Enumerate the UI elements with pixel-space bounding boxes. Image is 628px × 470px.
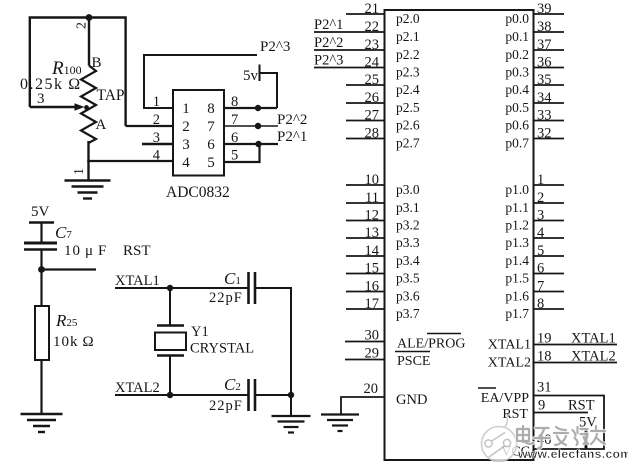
svg-text:p1.6: p1.6 <box>505 289 529 304</box>
pin number 3 (pot wiper) <box>37 91 45 107</box>
wire MCU pin 17 <box>346 308 385 310</box>
pin number 23 <box>365 37 380 53</box>
resistor R100 body (zigzag) <box>81 66 96 144</box>
label C7 <box>55 223 72 242</box>
wire MCU pin 21 <box>346 13 385 15</box>
pin label p3.3 <box>396 235 420 250</box>
node ADC pin7 <box>255 123 261 129</box>
svg-text:ADC0832: ADC0832 <box>166 184 230 201</box>
svg-text:P2^1: P2^1 <box>277 129 307 145</box>
wire MCU pin 7 <box>534 291 565 293</box>
pin label p3.0 <box>396 182 420 197</box>
node pot top junction <box>86 14 93 21</box>
svg-text:7: 7 <box>231 112 238 128</box>
net XTAL1 label <box>115 273 160 289</box>
ground (R25) <box>21 414 63 432</box>
svg-text:PSCE: PSCE <box>397 354 430 369</box>
wire MCU pin 1 <box>534 184 565 186</box>
label R25 <box>55 311 78 330</box>
ground (pot) <box>65 181 111 199</box>
wire MCU pin 23 <box>314 49 385 51</box>
node XTAL2 / crystal <box>167 392 173 398</box>
pin label p3.1 <box>396 200 420 215</box>
pin number 4 (ADC) <box>153 148 161 164</box>
pin label p1.2 <box>505 218 529 233</box>
net P2^2 (ADC) <box>277 112 307 128</box>
pin label p2.2 <box>396 47 420 62</box>
wire MCU pin 24 <box>314 67 385 69</box>
svg-text:26: 26 <box>365 90 380 106</box>
pin number 20 <box>364 381 379 397</box>
wire MCU pin 34 <box>534 102 565 104</box>
MCU 89C51 body <box>385 10 534 460</box>
pin label p2.3 <box>396 65 420 80</box>
svg-text:10k Ω: 10k Ω <box>53 334 95 350</box>
wire MCU pin 26 <box>346 102 385 104</box>
pin label p1.3 <box>505 235 529 250</box>
pin number 13 <box>365 225 380 241</box>
pin label p1.0 <box>505 182 529 197</box>
svg-text:8: 8 <box>537 296 544 312</box>
pin label p2.1 <box>396 29 420 44</box>
pin number 27 <box>365 107 380 123</box>
label C2 <box>224 375 241 394</box>
svg-text:p0.3: p0.3 <box>505 65 529 80</box>
svg-text:4: 4 <box>182 155 190 171</box>
svg-text:1: 1 <box>72 168 87 175</box>
pin label EA/VPP <box>478 388 529 406</box>
svg-text:TAP: TAP <box>97 87 125 104</box>
svg-text:p2.2: p2.2 <box>396 47 420 62</box>
wire MCU pin 2 <box>534 202 565 204</box>
net RST label <box>123 243 151 259</box>
pin label p0.0 <box>505 11 529 26</box>
power 5v tap <box>243 65 277 109</box>
svg-text:XTAL1: XTAL1 <box>115 273 160 289</box>
svg-text:XTAL2: XTAL2 <box>488 356 531 371</box>
svg-text:18: 18 <box>537 349 552 365</box>
svg-text:35: 35 <box>537 72 552 88</box>
svg-text:10 μ F: 10 μ F <box>64 243 107 259</box>
svg-text:2: 2 <box>182 119 190 135</box>
wire ADC pin5 to pin6 <box>224 144 260 162</box>
wire ADC pin3 stub <box>142 143 173 145</box>
pin number 37 <box>537 37 552 53</box>
svg-text:6: 6 <box>231 130 238 146</box>
pin label p2.7 <box>396 136 420 151</box>
pin label RST <box>502 407 528 422</box>
svg-text:22: 22 <box>365 19 380 35</box>
svg-text:31: 31 <box>537 380 552 396</box>
pin number 7 (ADC) <box>231 112 238 128</box>
wire MCU pin 37 <box>534 49 565 51</box>
svg-text:Y1: Y1 <box>191 324 209 340</box>
svg-text:p1.2: p1.2 <box>505 218 529 233</box>
wire ADC pin1 to P2^3 <box>144 55 257 108</box>
wire MCU pin 9 RST <box>534 412 589 414</box>
svg-text:EA/VPP: EA/VPP <box>481 391 529 406</box>
svg-text:5: 5 <box>537 243 544 259</box>
pin label p0.5 <box>505 100 529 115</box>
svg-text:P2^1: P2^1 <box>314 17 343 33</box>
wire MCU pin 12 <box>346 220 385 222</box>
svg-text:22pF: 22pF <box>209 290 243 306</box>
net P2^1 (ADC) <box>277 129 307 145</box>
svg-text:XTAL1: XTAL1 <box>571 331 616 347</box>
pin number 6 (ADC) <box>231 130 238 146</box>
net XTAL2 label <box>115 380 160 396</box>
pin number 2 <box>537 190 544 206</box>
net P2^3 (ADC) <box>260 39 290 55</box>
svg-text:p1.4: p1.4 <box>505 253 529 268</box>
svg-text:3: 3 <box>37 91 45 107</box>
pin number 4 <box>537 225 545 241</box>
node ground rail <box>288 392 294 398</box>
wire MCU pin 3 <box>534 220 565 222</box>
pin number 15 <box>365 260 380 276</box>
wire MCU pin 5 <box>534 255 565 257</box>
wire ADC pin2 to pot <box>126 125 173 127</box>
pin number 3 (ADC) <box>153 130 160 146</box>
svg-text:27: 27 <box>365 107 380 123</box>
pin number 36 <box>537 54 552 70</box>
wire MCU pin 35 <box>534 84 565 86</box>
wire MCU pin 13 <box>346 237 385 239</box>
pin number 8 <box>537 296 544 312</box>
svg-text:30: 30 <box>365 328 380 344</box>
svg-text:17: 17 <box>365 296 380 312</box>
capacitor C2 <box>249 379 256 411</box>
svg-text:16: 16 <box>365 278 380 294</box>
pin number 5 (ADC) <box>231 148 238 164</box>
wire C1 to ground rail <box>255 288 291 395</box>
wire MCU pin 22 <box>314 31 385 33</box>
svg-text:22pF: 22pF <box>209 398 243 414</box>
power 5V (MCU) <box>579 415 597 450</box>
pin number 39 <box>537 1 552 17</box>
svg-text:p1.3: p1.3 <box>505 235 529 250</box>
svg-text:XTAL2: XTAL2 <box>115 380 160 396</box>
wire MCU pin 19 XTAL1 <box>534 344 618 346</box>
wire MCU pin 38 <box>534 31 565 33</box>
wire MCU pin 30 ALE <box>345 341 385 343</box>
svg-text:p0.2: p0.2 <box>505 47 529 62</box>
pin number 1 (ADC) <box>153 94 160 110</box>
wire ground rail down <box>290 395 292 416</box>
svg-text:20: 20 <box>364 381 379 397</box>
svg-text:RST: RST <box>568 398 595 414</box>
svg-text:p2.1: p2.1 <box>396 29 420 44</box>
pin label p2.6 <box>396 118 420 133</box>
pin number 28 <box>365 125 380 141</box>
pin number 33 <box>537 107 552 123</box>
wire C2 to ground rail <box>255 394 291 396</box>
svg-text:p3.2: p3.2 <box>396 218 420 233</box>
svg-text:P2^2: P2^2 <box>314 35 343 51</box>
node pot wiper contact <box>84 105 89 110</box>
svg-text:14: 14 <box>365 243 380 259</box>
pin label XTAL1 <box>488 338 531 353</box>
wire pot wiper (TAP) from loop <box>30 106 76 108</box>
svg-text:24: 24 <box>365 54 380 70</box>
wire MCU pin 29 PSEN <box>345 359 385 361</box>
pot wiper arrow <box>75 103 85 111</box>
svg-text:5V: 5V <box>31 204 50 220</box>
svg-text:10: 10 <box>365 172 380 188</box>
pin label p0.4 <box>505 82 529 97</box>
svg-text:C7: C7 <box>55 223 72 242</box>
svg-text:1: 1 <box>537 172 544 188</box>
svg-text:7: 7 <box>207 119 215 135</box>
svg-text:p0.4: p0.4 <box>505 82 529 97</box>
svg-text:33: 33 <box>537 107 552 123</box>
pin number 12 <box>365 207 380 223</box>
svg-text:19: 19 <box>537 331 552 347</box>
wire MCU pin 18 XTAL2 <box>534 362 618 364</box>
ground (crystal) <box>272 416 311 433</box>
pin label p0.6 <box>505 118 529 133</box>
pin number 21 <box>365 1 380 17</box>
svg-text:www.elecfans.com: www.elecfans.com <box>517 447 628 461</box>
pin label p3.2 <box>396 218 420 233</box>
wire MCU pin 39 <box>534 13 565 15</box>
label A <box>96 117 107 133</box>
svg-text:p3.3: p3.3 <box>396 235 420 250</box>
svg-text:C2: C2 <box>224 375 241 394</box>
pin label p1.5 <box>505 271 529 286</box>
svg-text:p2.3: p2.3 <box>396 65 420 80</box>
value 0.25k ohm <box>20 76 82 93</box>
svg-text:3: 3 <box>537 207 544 223</box>
pin number 9 <box>538 398 545 414</box>
svg-text:p3.4: p3.4 <box>396 253 420 268</box>
svg-text:CRYSTAL: CRYSTAL <box>190 341 254 357</box>
svg-text:2: 2 <box>537 190 544 206</box>
svg-text:37: 37 <box>537 37 552 53</box>
svg-text:R25: R25 <box>55 311 78 330</box>
pin number 2 (pot) <box>75 22 90 29</box>
svg-text:p3.7: p3.7 <box>396 306 420 321</box>
wire C7 to R25 junction <box>40 250 42 307</box>
svg-text:p1.0: p1.0 <box>505 182 529 197</box>
wire MCU pin 33 <box>534 120 565 122</box>
crystal Y1 body <box>155 326 186 356</box>
wire MCU pin 15 <box>346 273 385 275</box>
wire MCU pin 6 <box>534 273 565 275</box>
svg-text:11: 11 <box>365 190 379 206</box>
pin label p2.0 <box>396 11 420 26</box>
svg-text:p3.6: p3.6 <box>396 289 420 304</box>
svg-text:8: 8 <box>231 94 238 110</box>
capacitor C7 <box>24 243 57 250</box>
pin number 1 (pot) <box>72 168 87 175</box>
svg-text:p3.1: p3.1 <box>396 200 420 215</box>
svg-text:2: 2 <box>153 112 160 128</box>
pin number 22 <box>365 19 380 35</box>
pin number 26 <box>365 90 380 106</box>
wire pot bottom terminal to ground and ADC pin4 <box>87 141 173 180</box>
net P2^2 (MCU) <box>314 35 343 51</box>
net RST (MCU) <box>568 398 595 414</box>
svg-text:p0.5: p0.5 <box>505 100 529 115</box>
pin number 3 <box>537 207 544 223</box>
wire R25 to ground <box>40 360 42 414</box>
svg-text:GND: GND <box>396 392 427 408</box>
pin label p2.5 <box>396 100 420 115</box>
wire crystal bottom <box>169 356 171 396</box>
svg-text:p2.7: p2.7 <box>396 136 420 151</box>
wire MCU pin 16 <box>346 291 385 293</box>
value 10k ohm <box>53 334 95 350</box>
label ADC0832 <box>166 184 230 201</box>
net XTAL2 (MCU) <box>571 349 616 365</box>
svg-text:12: 12 <box>365 207 380 223</box>
wire MCU pin 36 <box>534 67 565 69</box>
pin label p3.4 <box>396 253 420 268</box>
pin number 10 <box>365 172 380 188</box>
pin label p2.4 <box>396 82 420 97</box>
svg-text:36: 36 <box>537 54 552 70</box>
pin label GND <box>396 392 427 408</box>
wire XTAL1 <box>115 287 249 289</box>
svg-text:8: 8 <box>207 101 215 117</box>
svg-text:9: 9 <box>538 398 545 414</box>
pin label PSCE <box>395 352 430 370</box>
label R100 <box>51 58 82 79</box>
pin number 25 <box>365 72 380 88</box>
svg-text:p3.5: p3.5 <box>396 271 420 286</box>
svg-text:6: 6 <box>537 260 544 276</box>
svg-text:32: 32 <box>537 125 552 141</box>
svg-text:XTAL1: XTAL1 <box>488 338 531 353</box>
node RST junction <box>38 266 45 273</box>
svg-text:p1.1: p1.1 <box>505 200 529 215</box>
node XTAL1 / crystal <box>167 285 173 291</box>
wire MCU pin 27 <box>346 120 385 122</box>
pin number 31 <box>537 380 552 396</box>
wire MCU pin 25 <box>346 84 385 86</box>
svg-text:p2.0: p2.0 <box>396 11 420 26</box>
net P2^3 (MCU) <box>314 53 343 69</box>
pin number 35 <box>537 72 552 88</box>
svg-text:5v: 5v <box>243 68 259 84</box>
node ADC pin6 <box>255 141 261 147</box>
value 22pF (C1) <box>209 290 243 306</box>
label TAP <box>97 87 125 104</box>
wire ADC pin8 to 5v <box>224 107 277 109</box>
pin label p3.5 <box>396 271 420 286</box>
svg-text:39: 39 <box>537 1 552 17</box>
svg-text:p1.7: p1.7 <box>505 306 529 321</box>
svg-text:1: 1 <box>153 94 160 110</box>
svg-text:4: 4 <box>153 148 161 164</box>
svg-text:3: 3 <box>153 130 160 146</box>
pin label ALE/PROG <box>397 334 465 352</box>
wire MCU pin 31 EA/VPP to 5V <box>534 396 605 450</box>
pin number 32 <box>537 125 552 141</box>
wire MCU pin 32 <box>534 138 565 140</box>
pin number 5 <box>537 243 544 259</box>
capacitor C1 <box>249 272 256 304</box>
pin label XTAL2 <box>488 356 531 371</box>
label C1 <box>224 269 241 288</box>
svg-text:p0.0: p0.0 <box>505 11 529 26</box>
net P2^1 (MCU) <box>314 17 343 33</box>
svg-text:p2.4: p2.4 <box>396 82 420 97</box>
wire XTAL2 <box>115 394 249 396</box>
svg-text:5: 5 <box>207 155 215 171</box>
svg-text:P2^2: P2^2 <box>277 112 307 128</box>
svg-text:p2.5: p2.5 <box>396 100 420 115</box>
pin label p3.7 <box>396 306 420 321</box>
wire ADC pin7 to P2^2 <box>224 125 278 127</box>
svg-text:p1.5: p1.5 <box>505 271 529 286</box>
pin number 17 <box>365 296 380 312</box>
svg-text:0.25k Ω: 0.25k Ω <box>20 76 82 93</box>
svg-text:P2^3: P2^3 <box>314 53 343 69</box>
svg-text:25: 25 <box>365 72 380 88</box>
svg-text:XTAL2: XTAL2 <box>571 349 616 365</box>
svg-text:21: 21 <box>365 1 380 17</box>
svg-text:13: 13 <box>365 225 380 241</box>
pin label p1.7 <box>505 306 529 321</box>
wire MCU pin 14 <box>346 255 385 257</box>
wire MCU pin 10 <box>346 184 385 186</box>
wire MCU pin 20 GND to ground <box>341 397 385 414</box>
pin number 34 <box>537 90 552 106</box>
IC ADC0832 body <box>173 90 224 176</box>
value 10uF <box>64 243 107 259</box>
wire RST stub <box>42 268 97 270</box>
svg-text:C1: C1 <box>224 269 241 288</box>
svg-text:A: A <box>96 117 107 133</box>
pin label p1.4 <box>505 253 529 268</box>
pin number 30 <box>365 328 380 344</box>
pin number 2 (ADC) <box>153 112 160 128</box>
pin label p3.6 <box>396 289 420 304</box>
wire MCU pin 11 <box>346 202 385 204</box>
svg-text:7: 7 <box>537 278 544 294</box>
pin number 16 <box>365 278 380 294</box>
pin number 14 <box>365 243 380 259</box>
pin number 11 <box>365 190 379 206</box>
svg-text:28: 28 <box>365 125 380 141</box>
svg-text:38: 38 <box>537 19 552 35</box>
wire MCU pin 8 <box>534 308 565 310</box>
wire MCU pin 4 <box>534 237 565 239</box>
svg-text:p0.7: p0.7 <box>505 136 529 151</box>
power 5V (reset circuit) <box>29 204 54 242</box>
label Y1 <box>191 324 209 340</box>
resistor R25 body <box>35 306 49 360</box>
svg-text:RST: RST <box>123 243 151 259</box>
svg-text:6: 6 <box>207 137 215 153</box>
svg-text:RST: RST <box>502 407 528 422</box>
pin label p0.2 <box>505 47 529 62</box>
wire crystal top <box>169 288 171 325</box>
svg-text:2: 2 <box>75 22 90 29</box>
pin number 24 <box>365 54 380 70</box>
pin label p1.1 <box>505 200 529 215</box>
svg-text:5: 5 <box>231 148 238 164</box>
wire MCU pin 28 <box>346 138 385 140</box>
wire pot top (terminal 2 to loop and ADC) <box>30 18 126 127</box>
svg-text:34: 34 <box>537 90 552 106</box>
svg-text:p2.6: p2.6 <box>396 118 420 133</box>
pin number 1 <box>537 172 544 188</box>
pin label p0.3 <box>505 65 529 80</box>
pin number 40 <box>537 432 552 448</box>
